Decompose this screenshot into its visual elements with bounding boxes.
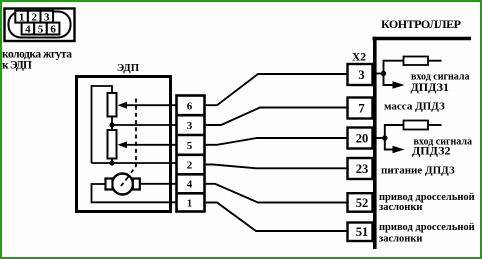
connector cell 5 bbox=[34, 23, 47, 35]
connector cell 1 bbox=[15, 11, 28, 23]
arrow signal DPDZ2 bbox=[385, 138, 394, 150]
dashed mechanical link bbox=[124, 99, 136, 183]
svg-text:5: 5 bbox=[38, 23, 44, 35]
resistor R4 bbox=[404, 121, 429, 130]
svg-text:6: 6 bbox=[50, 23, 56, 35]
svg-text:4: 4 bbox=[25, 23, 31, 35]
EDP pin block bbox=[177, 96, 205, 212]
wire motor left to pin 1 bbox=[92, 184, 177, 202]
wire R1 bottom to R2 top bbox=[111, 117, 113, 131]
ctrl pin 3 bbox=[348, 64, 373, 85]
wire motor right to pin 4 bbox=[140, 183, 176, 185]
svg-text:ДПДЗ1: ДПДЗ1 bbox=[411, 80, 449, 94]
resistor R2 (lower potentiometer track) bbox=[108, 130, 117, 159]
node pin20 bbox=[382, 135, 387, 140]
svg-text:ЭДП: ЭДП bbox=[117, 62, 140, 74]
resistor R3 bbox=[404, 57, 429, 66]
ctrl pin 51 bbox=[348, 223, 373, 242]
svg-text:питание ДПДЗ: питание ДПДЗ bbox=[381, 165, 455, 177]
svg-text:6: 6 bbox=[187, 100, 193, 112]
controller left border bbox=[373, 37, 377, 249]
wiper 2 wire to pin 5 bbox=[126, 144, 176, 146]
connector cell 4 bbox=[22, 23, 35, 35]
controller top border bbox=[373, 37, 472, 41]
svg-text:привод дроссельной: привод дроссельной bbox=[379, 222, 475, 233]
motor brush left bbox=[106, 179, 113, 190]
svg-text:2: 2 bbox=[187, 159, 193, 171]
svg-text:52: 52 bbox=[356, 196, 369, 210]
node junction R1-R2 bbox=[109, 122, 114, 127]
svg-text:23: 23 bbox=[356, 162, 369, 176]
svg-text:ДПДЗ2: ДПДЗ2 bbox=[412, 144, 450, 158]
motor M bbox=[112, 174, 133, 195]
svg-text:20: 20 bbox=[356, 131, 369, 145]
EDP box bbox=[77, 77, 171, 212]
svg-text:51: 51 bbox=[356, 225, 369, 239]
wire rail node to pin 2 bbox=[92, 162, 177, 164]
node junction rail-R2 bbox=[109, 160, 114, 165]
connector stadium outline bbox=[9, 12, 71, 38]
svg-text:заслонки: заслонки bbox=[379, 202, 422, 213]
ctrl pin 23 bbox=[348, 158, 373, 179]
ctrl pin 52 bbox=[348, 193, 373, 212]
wire EDP6 to ctrl 3 bbox=[205, 74, 348, 105]
svg-text:масса ДПДЗ: масса ДПДЗ bbox=[384, 101, 445, 113]
wire junction to pin 3 bbox=[112, 124, 176, 126]
arrow signal DPDZ1 bbox=[384, 74, 395, 86]
svg-text:3: 3 bbox=[187, 120, 193, 132]
svg-text:5: 5 bbox=[187, 140, 193, 152]
svg-text:X2: X2 bbox=[352, 52, 366, 64]
wire node up to resistor R3 bbox=[384, 61, 404, 74]
wire pin3 to node bbox=[373, 73, 384, 75]
ctrl pin 20 bbox=[348, 128, 373, 149]
motor brush right bbox=[133, 179, 140, 190]
connector cell 2 bbox=[28, 11, 41, 23]
svg-text:1: 1 bbox=[187, 197, 193, 209]
svg-text:4: 4 bbox=[187, 179, 193, 191]
connector cell 6 bbox=[47, 23, 60, 35]
ctrl pin 7 bbox=[348, 98, 373, 119]
node pin3 bbox=[381, 71, 386, 76]
wire node up to resistor R4 bbox=[385, 125, 404, 138]
wire R4 right bbox=[428, 124, 442, 126]
connector cell 3 bbox=[41, 11, 54, 23]
wire EDP2 to ctrl 23 bbox=[205, 165, 348, 169]
wire R2 bottom to rail node bbox=[111, 159, 113, 164]
svg-text:3: 3 bbox=[358, 68, 364, 82]
wire EDP3 to ctrl 7 bbox=[205, 108, 348, 126]
svg-text:к ЭДП: к ЭДП bbox=[2, 60, 32, 72]
wire EDP5 to ctrl 20 bbox=[205, 138, 348, 145]
wire pin20 to node bbox=[373, 137, 385, 139]
svg-text:КОНТРОЛЛЕР: КОНТРОЛЛЕР bbox=[381, 17, 461, 31]
wire EDP4 to ctrl 52 bbox=[205, 184, 348, 203]
wire R3 right bbox=[428, 60, 442, 62]
wiper 1 wire to pin 6 bbox=[126, 104, 176, 106]
wire left rail bbox=[92, 86, 113, 163]
svg-text:7: 7 bbox=[358, 101, 364, 115]
connector X1 outer body bbox=[5, 9, 75, 42]
svg-text:заслонки: заслонки bbox=[379, 233, 422, 244]
resistor R1 (upper potentiometer track) bbox=[108, 93, 117, 117]
wire EDP1 to ctrl 51 bbox=[205, 203, 348, 232]
